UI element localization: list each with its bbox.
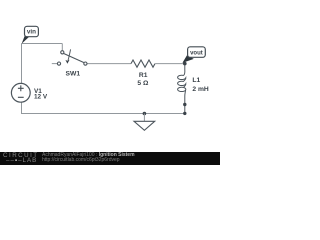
svg-text:L1: L1: [192, 77, 200, 84]
svg-text:12 V: 12 V: [34, 94, 48, 101]
svg-text:5 Ω: 5 Ω: [137, 80, 149, 87]
svg-text:R1: R1: [139, 72, 148, 79]
svg-text:vout: vout: [190, 50, 203, 56]
svg-text:SW1: SW1: [66, 71, 81, 78]
svg-text:vin: vin: [27, 29, 36, 36]
svg-text:2 mH: 2 mH: [192, 86, 209, 93]
